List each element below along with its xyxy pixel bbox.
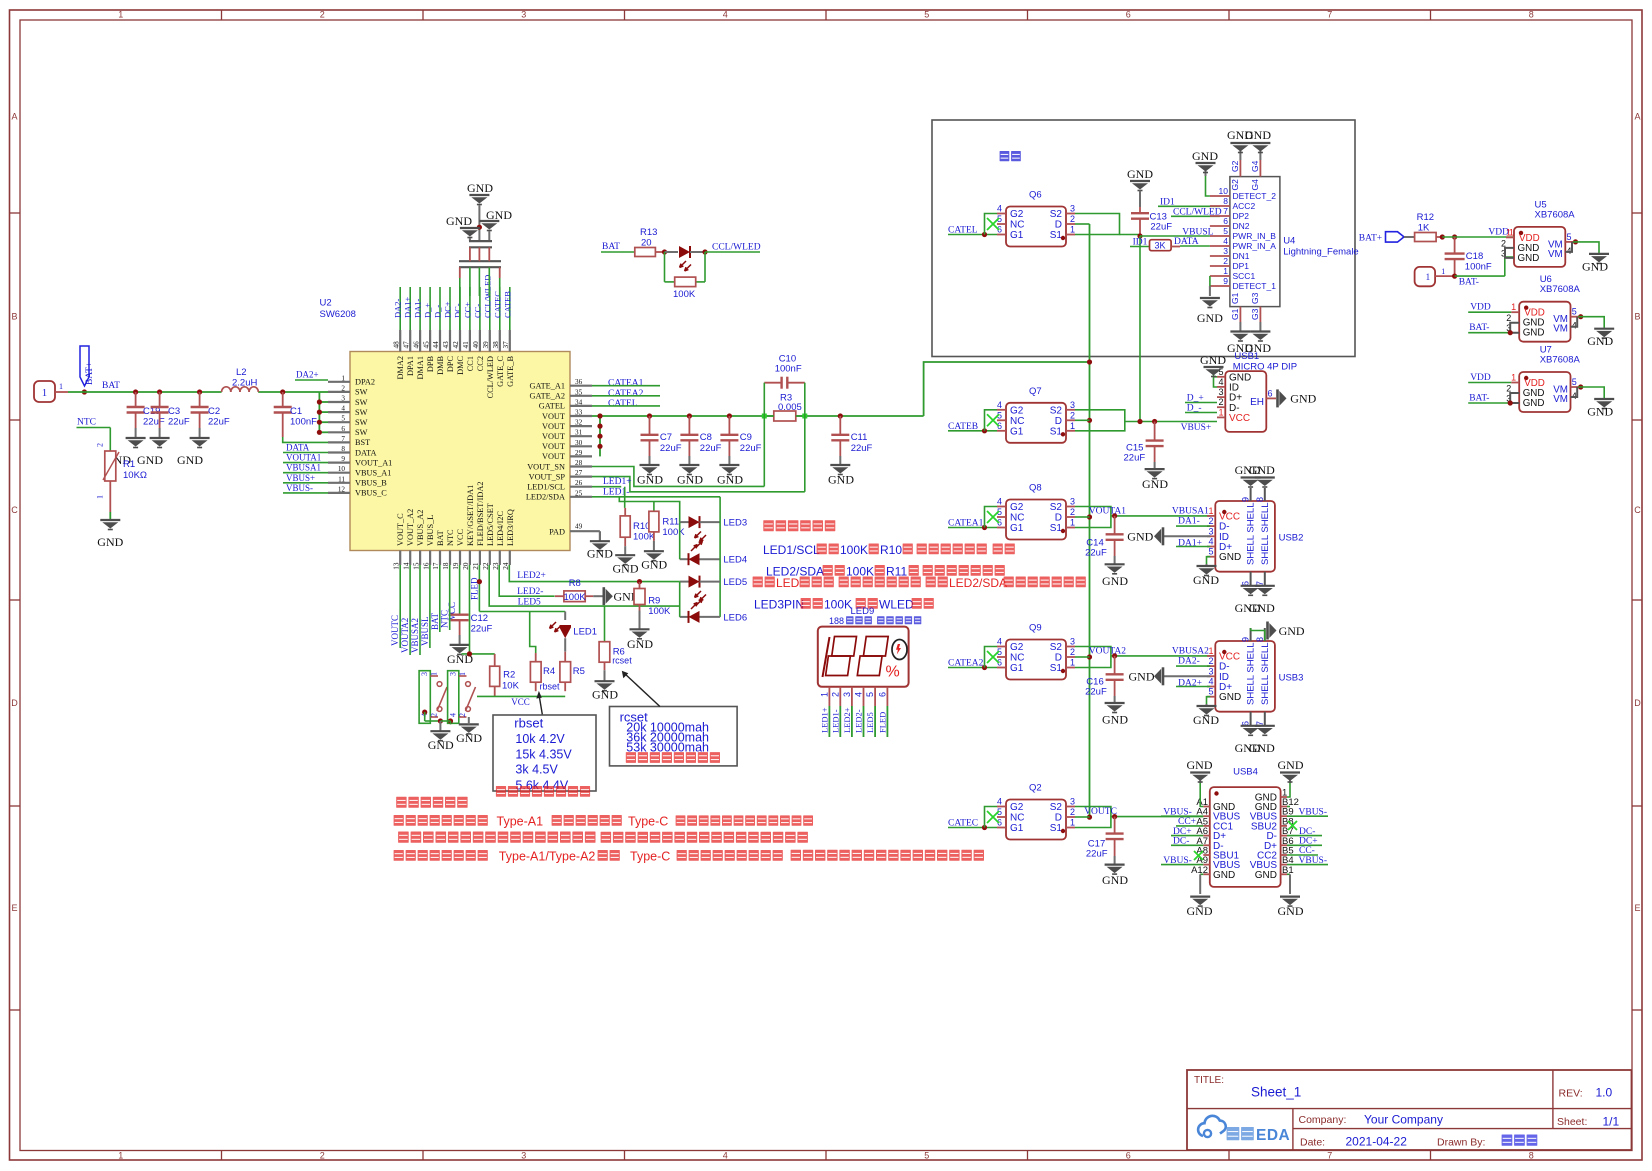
svg-text:6: 6 [877,692,887,697]
svg-text:36: 36 [575,378,583,386]
svg-text:46: 46 [412,341,420,349]
svg-text:11: 11 [338,475,345,483]
svg-text:16: 16 [422,562,430,570]
resistor R2 10K [490,654,520,697]
U2 top pins 48-37 [392,275,514,399]
svg-text:BAT: BAT [102,381,120,391]
svg-text:3: 3 [1218,387,1223,397]
resistor R10 100K [620,508,656,555]
svg-text:12: 12 [338,485,346,493]
svg-text:VM: VM [1553,324,1568,335]
svg-text:1: 1 [430,672,439,676]
svg-text:1: 1 [59,382,63,391]
svg-text:LED1-: LED1- [830,709,840,733]
svg-text:R11: R11 [886,565,907,579]
svg-text:22uF: 22uF [208,417,230,428]
svg-text:G2: G2 [1230,179,1240,191]
capacitor C15 22uF [1124,422,1164,470]
svg-text:C: C [11,505,18,515]
net label LED1- [592,488,720,498]
svg-text:S2: S2 [1050,405,1063,416]
annotation box rcset [610,707,738,766]
gnd switch S1 [428,721,454,752]
svg-text:SHELL SHELL: SHELL SHELL [1260,643,1271,706]
capacitor pair C4 C5 [459,241,501,330]
svg-text:40: 40 [472,341,480,349]
svg-text:G3: G3 [1250,308,1260,320]
svg-text:GND: GND [1582,259,1608,273]
title block [1187,1070,1632,1150]
svg-text:1: 1 [1070,421,1075,431]
svg-text:5: 5 [1567,232,1572,242]
svg-text:LED6: LED6 [723,612,747,623]
wire VCC rail [477,686,565,706]
gnd USB3 shell bottom [1235,726,1276,755]
flag BAT plus right [1359,232,1415,244]
svg-text:Q2: Q2 [1029,783,1042,794]
svg-text:rbset: rbset [514,716,543,731]
svg-text:1: 1 [1070,658,1075,668]
svg-text:XB7608A: XB7608A [1540,284,1581,295]
svg-text:GND: GND [677,473,703,487]
svg-text:GND: GND [1278,758,1304,772]
svg-text:G2: G2 [1010,405,1024,416]
gnd C11 [828,465,854,487]
svg-text:VBUS_A2: VBUS_A2 [416,510,425,546]
svg-text:CATEB: CATEB [502,291,512,318]
svg-text:37: 37 [502,341,510,349]
text mode options blue [763,520,835,531]
svg-text:R5: R5 [573,666,585,677]
diode LED5 [680,576,747,601]
IC U7 XB7608A [1468,345,1614,419]
svg-text:VOUT: VOUT [542,422,565,431]
gnd C7 [637,465,663,487]
net label CATEL [948,214,997,238]
svg-text:GND: GND [1249,741,1275,755]
svg-text:VOUTA1: VOUTA1 [1089,507,1126,517]
svg-text:GND: GND [1193,573,1219,587]
svg-text:VOUT: VOUT [542,442,565,451]
svg-text:G1: G1 [1010,663,1024,674]
gnd U4 pin10 [1192,149,1218,196]
svg-text:S1: S1 [1050,426,1063,437]
display LED9 188 [818,606,922,687]
svg-text:BAT: BAT [430,612,440,630]
svg-text:D: D [1055,653,1062,664]
svg-text:6: 6 [1126,10,1131,20]
IC U2 SW6208 body [320,298,571,551]
svg-text:R9: R9 [648,596,660,607]
gnd USB1 pins45 [1200,353,1226,387]
gnd switch S2 [456,717,482,745]
svg-text:R10: R10 [633,521,650,532]
svg-text:3: 3 [449,672,458,676]
wire FLED BSET [477,579,565,653]
svg-text:VCC: VCC [511,697,530,707]
gnd R9 [627,629,653,651]
svg-text:1: 1 [118,1151,123,1161]
svg-text:GND: GND [1102,713,1128,727]
svg-text:LED1+: LED1+ [603,477,632,487]
gnd U4 top [1227,128,1271,153]
gnd R8 sideways [604,587,640,605]
svg-text:1: 1 [1070,818,1075,828]
svg-text:3: 3 [341,395,345,403]
svg-text:3: 3 [1208,666,1213,676]
gnd U4 pin9 [1197,276,1223,325]
svg-text:DC-: DC- [453,303,463,318]
svg-text:BAT+: BAT+ [1359,234,1382,244]
svg-text:GND: GND [828,473,854,487]
svg-text:29: 29 [575,449,583,457]
svg-text:Your Company: Your Company [1364,1113,1443,1127]
svg-text:Sheet_1: Sheet_1 [1251,1085,1301,1100]
gnd USB2 pin5 [1193,557,1219,587]
gnd C16 [1102,703,1128,727]
svg-text:PAD: PAD [549,527,565,536]
svg-text:DA1-: DA1- [413,298,423,318]
svg-text:5: 5 [341,415,345,423]
svg-text:8: 8 [1255,637,1265,642]
svg-text:LED5/CSET: LED5/CSET [486,503,495,546]
svg-text:45: 45 [422,341,430,349]
label ID1 upper CCL [1158,198,1222,218]
svg-text:3: 3 [1070,497,1075,507]
svg-text:34: 34 [575,398,583,406]
svg-text:G1: G1 [1010,823,1024,834]
svg-text:GND: GND [1523,328,1545,339]
castration box [932,120,1355,357]
svg-text:LED5: LED5 [723,577,747,588]
svg-text:LED1/SCL: LED1/SCL [763,543,823,557]
flag BAT+ [80,346,95,395]
svg-text:22uF: 22uF [1124,452,1146,463]
svg-text:LED1: LED1 [573,627,597,638]
svg-text:Q7: Q7 [1029,386,1042,397]
capacitor C8 22uF [680,416,721,465]
svg-text:30: 30 [575,439,583,447]
capacitor C1 100nF [274,392,317,437]
svg-text:1: 1 [1511,302,1516,312]
svg-text:NTC: NTC [446,529,455,546]
IC U5 XB7608A [1501,199,1609,273]
wire Q9 output [1075,647,1210,668]
svg-text:DPA1: DPA1 [406,356,415,376]
svg-text:VOUTA2: VOUTA2 [400,618,410,653]
svg-text:KEY/GSET/IDA1: KEY/GSET/IDA1 [466,485,475,546]
svg-text:EH: EH [1250,397,1264,408]
svg-text:100K: 100K [846,565,874,579]
svg-text:GND: GND [1187,758,1213,772]
svg-text:GND: GND [446,214,472,228]
switch S2 [440,671,475,725]
svg-text:A: A [1634,112,1640,122]
svg-text:9: 9 [1223,276,1228,286]
svg-text:10KΩ: 10KΩ [123,470,147,481]
svg-text:100nF: 100nF [1465,261,1492,272]
svg-text:1: 1 [1208,646,1213,656]
gnd C2 [177,438,210,467]
svg-text:S1: S1 [1050,230,1063,241]
svg-text:GND: GND [1278,904,1304,918]
svg-text:4: 4 [997,400,1002,410]
svg-text:R13: R13 [640,227,657,238]
svg-text:DATA: DATA [355,448,376,457]
svg-text:GND: GND [1249,601,1275,615]
svg-text:8: 8 [341,445,345,453]
svg-text:VOUTA2: VOUTA2 [1089,647,1126,657]
connector USB3 [1207,628,1303,726]
svg-text:SHELL SHELL: SHELL SHELL [1246,643,1257,706]
svg-text:4: 4 [1223,236,1228,246]
wire Q2 output [1075,807,1203,828]
net labels below U2 [390,565,479,655]
svg-text:4: 4 [854,692,864,697]
svg-text:BAT: BAT [602,242,620,252]
svg-text:DN2: DN2 [1233,221,1250,231]
svg-text:Q8: Q8 [1029,483,1042,494]
svg-text:22uF: 22uF [1150,222,1172,233]
svg-text:GND: GND [456,731,482,745]
svg-text:6: 6 [1223,216,1228,226]
svg-text:38: 38 [492,341,500,349]
svg-text:15: 15 [412,562,420,570]
svg-text:TITLE:: TITLE: [1194,1075,1224,1086]
gnd USB4 A1 [1187,758,1213,807]
svg-text:GND: GND [1102,574,1128,588]
labels DA2 [1176,657,1210,689]
capacitor C16 22uF [1085,656,1124,703]
svg-text:CATEA2: CATEA2 [608,389,644,399]
svg-text:LED3PIN: LED3PIN [754,598,804,612]
svg-text:LED2+: LED2+ [517,571,546,581]
svg-text:PWR_IN_A: PWR_IN_A [1233,241,1277,251]
svg-text:5: 5 [1572,377,1577,387]
svg-text:VOUT_C: VOUT_C [396,513,405,546]
svg-text:100K: 100K [633,532,656,543]
svg-text:22uF: 22uF [1086,848,1108,859]
svg-text:E: E [11,903,17,913]
svg-text:31: 31 [575,429,583,437]
svg-text:B: B [1634,312,1640,322]
svg-text:R8: R8 [569,578,581,589]
gnd USB2 shell bottom [1235,586,1276,615]
transistor Q8 [987,483,1075,540]
svg-text:GND: GND [1213,870,1235,881]
labels DA1 [1176,517,1210,549]
svg-text:44: 44 [432,341,440,349]
svg-text:S1: S1 [1050,663,1063,674]
svg-text:26: 26 [575,479,583,487]
svg-text:GATE_C: GATE_C [496,356,505,387]
svg-text:VOUT: VOUT [542,412,565,421]
svg-text:1: 1 [1426,272,1431,282]
svg-text:VOUTA1: VOUTA1 [286,453,321,463]
svg-text:C7: C7 [660,432,672,443]
wire BAT- U5 [1455,257,1514,288]
svg-text:DN1: DN1 [1233,251,1250,261]
svg-text:DA1-: DA1- [1178,517,1200,527]
svg-text:D: D [1055,813,1062,824]
svg-text:Drawn By:: Drawn By: [1437,1137,1485,1149]
svg-text:1: 1 [1070,518,1075,528]
svg-text:C8: C8 [700,432,712,443]
svg-text:VBUS_C: VBUS_C [355,489,387,498]
svg-text:G1: G1 [1010,230,1024,241]
svg-text:GND: GND [1255,870,1277,881]
capacitor C18 100nF [1445,237,1492,276]
svg-text:39: 39 [482,341,490,349]
wire BST [283,437,328,442]
svg-text:10K: 10K [502,681,520,692]
svg-text:22uF: 22uF [168,417,190,428]
resistor R5 [560,652,585,692]
svg-text:VCC: VCC [456,528,465,546]
svg-text:R11: R11 [662,517,679,528]
svg-text:5: 5 [924,1151,929,1161]
wire LED right bus [719,497,721,617]
svg-text:GND: GND [1279,624,1305,638]
text LED1/SCL line [763,543,1015,557]
svg-text:DP1: DP1 [1233,261,1250,271]
svg-text:USB2: USB2 [1279,533,1304,544]
svg-text:D: D [1055,220,1062,231]
svg-text:GATE_B: GATE_B [506,356,515,387]
svg-text:VBUSL: VBUSL [420,616,430,646]
svg-text:G2: G2 [1010,642,1024,653]
svg-text:DP2: DP2 [1233,211,1250,221]
diode LED CCL/WLED [662,243,761,271]
svg-text:BAT+: BAT+ [85,362,95,385]
svg-text:DPB: DPB [426,356,435,373]
svg-text:GND: GND [637,473,663,487]
svg-text:G4: G4 [1250,160,1260,172]
svg-text:SW: SW [355,408,368,417]
U4 bottom pins G1 G3 [1230,292,1260,331]
svg-text:DPA2: DPA2 [355,378,375,387]
svg-text:GATE_A1: GATE_A1 [530,382,566,391]
svg-text:9: 9 [1241,497,1251,502]
gnd USB4 B1 [1278,874,1304,918]
svg-text:PWR_IN_B: PWR_IN_B [1233,231,1277,241]
wire LED2+ rail [509,565,679,584]
svg-text:G2: G2 [1010,209,1024,220]
lceda logo [1198,1116,1290,1144]
svg-text:100K: 100K [673,289,696,300]
svg-text:2: 2 [458,713,467,717]
resistor R6 rcset [489,606,632,681]
IC U6 XB7608A [1468,274,1614,348]
svg-text:SW: SW [355,398,368,407]
svg-text:D: D [11,698,18,708]
display LED9 pins [819,687,887,737]
svg-text:U4: U4 [1283,236,1295,247]
transistor Q6 [987,190,1075,247]
wire VBUSL [1140,227,1214,421]
svg-text:S2: S2 [1050,642,1063,653]
svg-text:BAT: BAT [436,530,445,546]
svg-text:G1: G1 [1010,523,1024,534]
svg-text:9: 9 [1241,637,1251,642]
svg-text:GATEL: GATEL [539,402,565,411]
gnd left cap [446,214,480,241]
wire LED5 LED6 left [679,582,681,617]
svg-text:2: 2 [1070,214,1075,224]
svg-text:GND: GND [1142,477,1168,491]
wire KEY pin20 [462,565,495,657]
svg-text:BAT-: BAT- [1459,278,1479,288]
svg-text:100K: 100K [662,527,685,538]
svg-text:A: A [11,112,17,122]
svg-text:GND: GND [1129,670,1155,684]
svg-text:GND: GND [1523,398,1545,409]
wire SW pins bus [317,392,328,435]
svg-text:VBUS_B: VBUS_B [355,479,387,488]
svg-text:NTC: NTC [440,610,450,628]
svg-text:2: 2 [830,692,840,697]
svg-text:DPC: DPC [446,356,455,373]
svg-text:SHELL SHELL: SHELL SHELL [1246,503,1257,566]
connector USB1 MICRO 4P DIP [1217,351,1297,432]
svg-text:Q9: Q9 [1029,623,1042,634]
U2 left pins 1-12 [328,374,392,497]
svg-text:Date:: Date: [1300,1137,1325,1149]
arrow rbset [536,691,542,715]
svg-text:VBUS+: VBUS+ [1181,423,1212,433]
net labels DA2+ DATA VOUTA1 VBUSA1 VBUS+ VBUS- [283,370,328,493]
svg-text:Sheet:: Sheet: [1557,1116,1587,1128]
transistor Q2 [987,783,1075,840]
text LED2/SDA line [766,565,1005,579]
svg-text:47: 47 [402,341,410,349]
svg-text:LED2/SDA: LED2/SDA [526,493,565,502]
svg-text:CCL/WLED: CCL/WLED [486,356,495,398]
svg-text:3: 3 [1070,637,1075,647]
svg-text:LED2-: LED2- [517,587,543,597]
svg-text:DMB: DMB [436,356,445,375]
wire Q6 S2 S1 loop [1075,214,1140,235]
svg-text:22uF: 22uF [851,443,873,454]
svg-text:100nF: 100nF [290,417,317,428]
wire VBUS+ Q7 to USB1 [1075,410,1217,433]
gnd R11 [641,551,667,571]
svg-text:D: D [1634,698,1641,708]
svg-text:14: 14 [402,562,410,570]
gnd C19 [105,438,146,467]
gnd USB4 A12 [1187,874,1213,918]
capacitor C14 22uF [1085,516,1124,564]
wire Q6 drain bus [1075,224,1092,820]
svg-text:32: 32 [575,419,583,427]
svg-text:LED5: LED5 [865,712,875,733]
svg-text:33: 33 [575,409,583,417]
svg-text:8: 8 [1529,1151,1534,1161]
capacitor C12 22uF [447,565,492,645]
svg-text:C1: C1 [290,406,302,417]
svg-text:4: 4 [1208,537,1213,547]
resistor R4 rbset [530,653,560,692]
svg-text:VOUT: VOUT [542,432,565,441]
svg-text:GND: GND [1200,353,1226,367]
svg-text:6: 6 [341,425,345,433]
svg-text:1: 1 [118,10,123,20]
svg-text:7: 7 [1223,206,1228,216]
svg-text:1: 1 [341,374,345,382]
gnd U4 bottom [1227,332,1271,356]
resistor 100K parallel [665,252,706,300]
svg-text:2: 2 [1208,516,1213,526]
